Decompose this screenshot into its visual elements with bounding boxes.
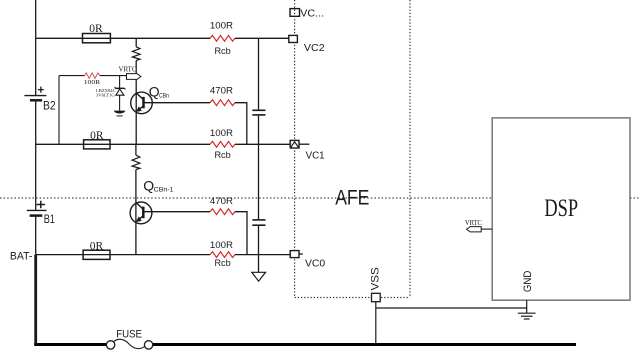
wire capacitor column bottom [258, 226, 260, 272]
wire rail between B2 and B1 [35, 100, 37, 210]
wire zigzag2 to row3 through Q_CBn-1 [135, 170, 137, 255]
wire 470R upper to row2 [235, 103, 247, 145]
resistor 0R row2 [84, 140, 110, 149]
svg-text:Rcb: Rcb [214, 46, 230, 57]
svg-text:100R: 100R [210, 240, 233, 251]
svg-text:VC2: VC2 [304, 42, 325, 54]
wire DSP GND pin [526, 300, 528, 313]
resistor 0R row3 [83, 250, 110, 259]
capacitor C1 [252, 110, 265, 115]
transistor Q_CBn-1 [130, 202, 152, 224]
dotted horizontal net line [0, 197, 640, 199]
resistor vertical unlabeled 2 [132, 155, 140, 169]
wire capacitor column top [258, 38, 260, 109]
svg-text:Q: Q [143, 178, 154, 194]
wire zener drop [119, 76, 121, 89]
wire VSS to DSP ground [376, 307, 527, 309]
battery B1 [27, 201, 47, 216]
wire base Q_CBn to 470R [144, 102, 211, 104]
AFE dashed box bottom edge [295, 297, 410, 299]
wire 470R lower to row3 [235, 212, 247, 255]
wire capacitor column mid [258, 116, 260, 219]
battery B2 [24, 87, 46, 101]
svg-text:B1: B1 [44, 214, 55, 226]
svg-text:VRTC: VRTC [465, 219, 482, 227]
resistor 470R lower [210, 209, 235, 215]
wire row2 stub right of VC1 [299, 143, 309, 145]
resistor 100R Rcb row2 [210, 141, 235, 147]
svg-text:VSS: VSS [369, 267, 381, 290]
svg-text:CBn: CBn [159, 93, 169, 100]
ground triangle [252, 272, 266, 281]
svg-text:0R: 0R [89, 23, 103, 35]
pin VC0 [290, 251, 299, 258]
inner loop left wire [58, 76, 60, 145]
wire row2 left [36, 143, 210, 145]
wire row3 left [36, 254, 210, 256]
svg-text:CBn-1: CBn-1 [154, 186, 174, 193]
svg-text:B2: B2 [43, 100, 56, 112]
resistor 470R upper [210, 100, 235, 106]
svg-text:3V6LT1G: 3V6LT1G [96, 93, 115, 98]
wire thick rail to bottom [34, 255, 37, 346]
resistor 100R Rcb row1 [210, 35, 235, 41]
wire thick bottom rail left [34, 343, 106, 346]
wire branch Q_CBn-1 from row2 [135, 144, 137, 155]
transistor Q_CBn [131, 92, 153, 114]
wire base Q_CBn-1 to 470R [143, 211, 210, 213]
AFE dashed box right edge [409, 0, 411, 298]
wire row3 stub right of VC0 [299, 253, 303, 255]
svg-text:0R: 0R [90, 241, 104, 253]
pin VC1 [290, 140, 299, 148]
wire row3 right [235, 254, 290, 256]
resistor vertical unlabeled 1 [132, 47, 140, 61]
wire zigzag1 to row2 through Q_CBn [135, 61, 137, 145]
wire branch Q_CBn from row1 [135, 38, 137, 47]
pin VC... [290, 9, 300, 17]
svg-text:100R: 100R [210, 128, 233, 139]
net tag VRTC at DSP [467, 227, 493, 232]
svg-text:FUSE: FUSE [116, 329, 142, 341]
svg-text:VC0: VC0 [305, 258, 325, 270]
svg-text:BAT-: BAT- [10, 251, 33, 263]
capacitor C2 [252, 220, 265, 225]
svg-text:Rcb: Rcb [214, 258, 230, 269]
resistor 100R Rcb row3 [210, 252, 235, 258]
svg-text:100R: 100R [84, 79, 101, 86]
svg-text:VC...: VC... [300, 7, 324, 19]
wire main left rail top [35, 0, 37, 96]
svg-text:470R: 470R [210, 196, 233, 207]
wire VSS to bottom rail [375, 302, 377, 344]
wire rail between B1 and BAT- row [35, 216, 37, 255]
inner loop top wire [59, 75, 127, 77]
earth ground symbol [518, 313, 536, 319]
wire row1 left [36, 37, 210, 39]
resistor 100R zener bias [85, 73, 100, 78]
net tag VRTC [127, 74, 141, 80]
wire row2 right [235, 143, 290, 145]
pin VSS [372, 293, 381, 301]
resistor 0R row1 [83, 34, 111, 43]
svg-text:AFE: AFE [335, 186, 369, 209]
AFE dashed box left edge [294, 0, 296, 298]
DSP box U2 [492, 118, 630, 300]
pin VC2 [289, 35, 298, 42]
svg-text:100R: 100R [210, 20, 233, 31]
svg-text:GND: GND [522, 270, 534, 292]
chassis ground under zener [114, 111, 126, 116]
wire thick bottom rail right [153, 343, 576, 346]
svg-text:VRTC: VRTC [119, 66, 137, 74]
svg-text:470R: 470R [210, 86, 233, 97]
svg-text:VC1: VC1 [306, 149, 325, 161]
svg-text:DSP: DSP [544, 193, 578, 222]
fuse F1 [106, 339, 152, 349]
zener diode D1 [115, 87, 126, 111]
wire row1 right [235, 37, 289, 39]
svg-text:Rcb: Rcb [214, 150, 230, 161]
svg-text:0R: 0R [90, 130, 104, 142]
